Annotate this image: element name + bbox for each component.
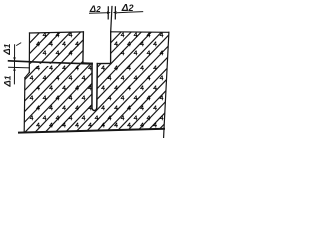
dim line: [13, 44, 15, 84]
right edge: [164, 32, 169, 137]
leader right: [117, 12, 143, 13]
arrow left pointing right: [107, 11, 111, 14]
leader left: [89, 12, 107, 15]
left edge step: [25, 72, 29, 77]
svg-text:Δ1: Δ1: [2, 43, 13, 55]
bottom edge: [19, 129, 164, 133]
groove left wall: [82, 32, 85, 63]
stray tick: [16, 43, 21, 46]
svg-text:Δ1: Δ1: [2, 75, 13, 87]
narrow slot walls and rounded bottom: [92, 63, 97, 110]
horizontal slit line: [9, 61, 92, 64]
groove floor left: [83, 62, 92, 64]
groove right wall: [110, 32, 112, 64]
top edge left segment: [30, 32, 84, 33]
groove floor right: [97, 62, 110, 64]
arrow up to lower ext line: [13, 67, 16, 71]
dimension delta1: [13, 43, 21, 85]
top edge right segment: [111, 31, 169, 34]
dimension delta2: [89, 6, 143, 32]
left edge lower: [23, 78, 26, 132]
left edge upper: [28, 33, 30, 72]
white relief band under the slit line: [30, 64, 58, 66]
svg-text:Δ2: Δ2: [89, 4, 101, 15]
extension line lower (delta1): [9, 66, 30, 69]
arrow right pointing left: [113, 11, 117, 14]
extension line from groove right wall: [111, 6, 112, 32]
arrow down to upper slit line: [13, 57, 16, 61]
svg-text:Δ2: Δ2: [121, 3, 134, 14]
part outline: [9, 32, 169, 138]
section hatching of the block: [0, 0, 319, 144]
flank stroke left: [107, 6, 109, 19]
flank stroke right: [114, 6, 116, 19]
material marks "4" in the section: [30, 33, 163, 127]
